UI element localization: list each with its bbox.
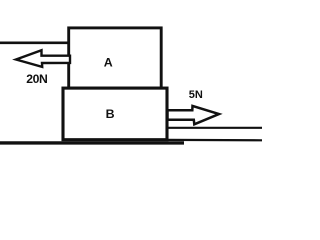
wire: right surface line lower: [167, 139, 262, 142]
svg-text:20N: 20N: [26, 72, 47, 86]
block B: [63, 88, 167, 140]
wire: right surface line upper: [166, 127, 262, 129]
ground: [0, 141, 184, 144]
block A: [69, 28, 162, 88]
arrow 5N (right force on block B): [168, 106, 220, 124]
wire: left surface line into block A: [0, 41, 70, 44]
svg-text:A: A: [104, 56, 113, 70]
svg-text:5N: 5N: [189, 89, 203, 101]
arrow 20N (left force on block A): [16, 50, 70, 67]
svg-text:B: B: [106, 107, 115, 121]
